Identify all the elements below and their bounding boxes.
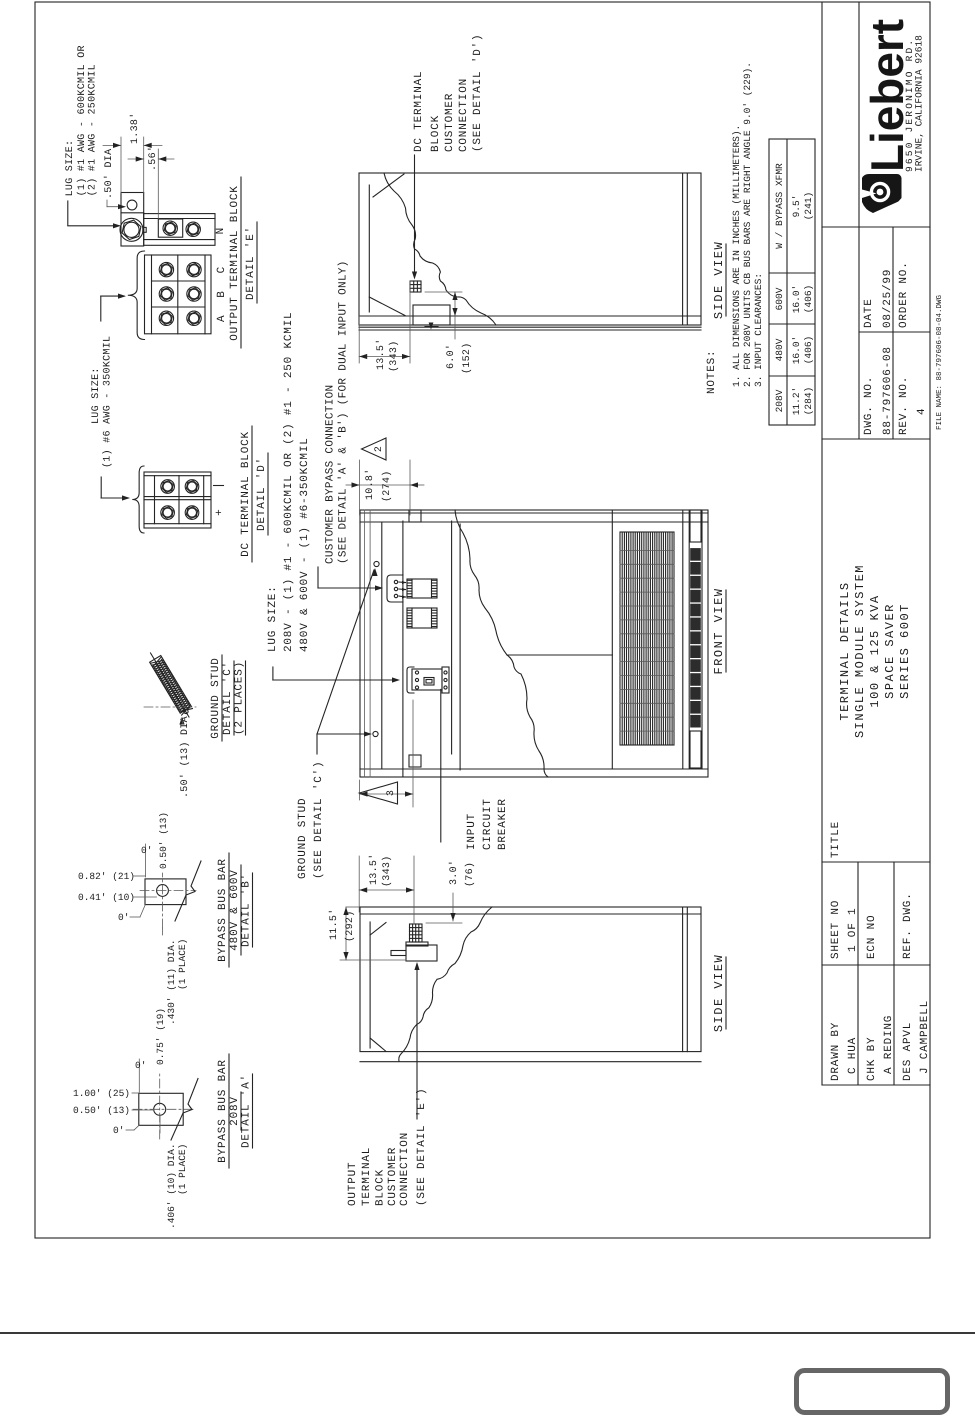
svg-text:TITLE: TITLE	[830, 821, 842, 858]
svg-text:C: C	[216, 266, 228, 273]
svg-text:(76): (76)	[464, 862, 476, 887]
input circuit breaker	[407, 667, 414, 693]
svg-text:TERMINAL DETAILS: TERMINAL DETAILS	[838, 581, 852, 720]
svg-text:DETAIL 'D': DETAIL 'D'	[256, 457, 268, 531]
svg-text:208V: 208V	[229, 1096, 241, 1126]
dimension 13.5 right side view	[358, 316, 360, 363]
svg-text:J CAMPBELL: J CAMPBELL	[919, 1000, 931, 1074]
leader to dc terminal block label	[414, 155, 416, 275]
svg-text:(SEE DETAIL 'A' & 'B') (FOR DU: (SEE DETAIL 'A' & 'B') (FOR DUAL INPUT O…	[338, 260, 350, 564]
title block top border line	[821, 2, 823, 1085]
detail E neutral screws	[163, 221, 177, 235]
svg-text:DC TERMINAL BLOCK: DC TERMINAL BLOCK	[240, 431, 252, 557]
lug bracket above block A	[387, 575, 403, 602]
svg-text:(1) #1 AWG - 600KCMIL OR: (1) #1 AWG - 600KCMIL OR	[76, 45, 88, 196]
svg-text:ECN NO: ECN NO	[866, 915, 878, 959]
dimension 3.0 left side view	[426, 922, 462, 924]
svg-text:C HUA: C HUA	[847, 1037, 859, 1074]
detail B break symbol	[175, 861, 201, 921]
svg-text:DETAIL 'B': DETAIL 'B'	[241, 873, 253, 947]
front view inner vertical lines	[360, 768, 708, 770]
detail E lug hex screw	[120, 218, 143, 241]
svg-text:(1) #6 AWG - 350KCMIL: (1) #6 AWG - 350KCMIL	[102, 336, 114, 468]
svg-text:B: B	[216, 290, 228, 297]
svg-text:0.50' (13): 0.50' (13)	[73, 1105, 130, 1116]
detail E neutral block	[144, 214, 215, 246]
detail B horizontal dims	[145, 844, 147, 877]
detail D brace leader	[100, 477, 102, 498]
Liebert logo icon	[862, 174, 902, 213]
dc terminal block detail D body	[144, 472, 211, 528]
detail E brace leader	[100, 296, 102, 321]
svg-text:0.75' (19): 0.75' (19)	[155, 1008, 166, 1065]
input clearance table	[769, 139, 815, 425]
svg-text:100 & 125 KVA: 100 & 125 KVA	[868, 594, 882, 707]
ground stud detail C hatched stud	[150, 655, 193, 715]
detail B hole	[157, 885, 169, 897]
detail E lug hole	[127, 200, 137, 210]
svg-text:CONNECTION: CONNECTION	[458, 78, 470, 152]
svg-text:(343): (343)	[388, 340, 400, 372]
front view ground stud upper	[374, 561, 379, 566]
svg-text:2: 2	[374, 446, 385, 452]
ground stud centre line	[144, 706, 196, 708]
svg-text:0': 0'	[113, 1125, 124, 1136]
bypass bus bar detail A body	[139, 1093, 183, 1125]
svg-text:IRVINE, CALIFORNIA 92618: IRVINE, CALIFORNIA 92618	[914, 35, 925, 172]
svg-text:DETAIL 'E': DETAIL 'E'	[245, 226, 257, 300]
ground stud axis line	[151, 653, 190, 717]
detail A centre lines	[133, 1108, 196, 1110]
svg-text:6.0': 6.0'	[445, 344, 457, 369]
dwg-no date table lines	[858, 2, 860, 439]
input circuit breaker leader	[440, 689, 442, 842]
dimension 10.8 front view	[359, 460, 361, 515]
title block divider lines	[822, 1084, 930, 1086]
svg-text:2. FOR 208V UNITS CB BUS BARS: 2. FOR 208V UNITS CB BUS BARS ARE RIGHT …	[742, 62, 753, 387]
right side view corner braces	[373, 174, 404, 197]
front view bypass connection block A	[407, 579, 437, 598]
svg-text:88-797606-08: 88-797606-08	[882, 346, 894, 435]
svg-text:CUSTOMER BYPASS CONNECTION: CUSTOMER BYPASS CONNECTION	[325, 385, 337, 564]
svg-text:CUSTOMER: CUSTOMER	[444, 93, 456, 152]
detail A break symbol	[171, 1079, 198, 1141]
front view break line	[455, 510, 548, 777]
svg-text:(152): (152)	[461, 342, 473, 374]
front view cabinet outline	[360, 510, 708, 777]
svg-text:NOTES:: NOTES:	[706, 350, 718, 394]
svg-text:DRAWN BY: DRAWN BY	[830, 1022, 842, 1081]
left side view corner braces	[370, 923, 386, 936]
front view bypass connection block B	[407, 608, 437, 628]
svg-text:GROUND STUD: GROUND STUD	[297, 798, 309, 879]
svg-text:DES APVL: DES APVL	[902, 1022, 914, 1081]
svg-text:480V & 600V - (1) #6-350KCMIL: 480V & 600V - (1) #6-350KCMIL	[299, 437, 311, 652]
detail D brace	[132, 466, 144, 533]
svg-text:(2) #1 AWG - 250KCMIL: (2) #1 AWG - 250KCMIL	[87, 64, 99, 196]
dimension flag 3 front view	[359, 780, 361, 800]
svg-text:DC TERMINAL: DC TERMINAL	[413, 71, 425, 152]
svg-text:SINGLE MODULE SYSTEM: SINGLE MODULE SYSTEM	[853, 564, 867, 738]
svg-text:BLOCK: BLOCK	[430, 115, 442, 152]
svg-text:SIDE VIEW: SIDE VIEW	[712, 954, 726, 1032]
svg-text:BREAKER: BREAKER	[497, 798, 509, 850]
svg-text:GROUND STUD: GROUND STUD	[210, 657, 222, 738]
dimension 11.5 left side view	[340, 959, 406, 961]
svg-text:13.5': 13.5'	[375, 338, 387, 370]
svg-text:10.8': 10.8'	[364, 468, 376, 500]
right side view breaker pocket	[413, 305, 450, 325]
leader to output terminal block label	[416, 964, 418, 1119]
svg-text:+: +	[214, 508, 226, 515]
svg-text:3: 3	[386, 790, 397, 796]
ground stud leader lines	[316, 734, 318, 754]
left side view rear panel lines	[360, 1061, 701, 1063]
svg-text:BLOCK: BLOCK	[375, 1169, 387, 1206]
svg-text:(2 PLACES): (2 PLACES)	[234, 661, 246, 735]
svg-text:0': 0'	[118, 912, 129, 923]
svg-text:CIRCUIT: CIRCUIT	[482, 798, 494, 850]
dimension 13.5 left side view	[358, 856, 360, 912]
lug size leader to breaker	[272, 667, 274, 680]
front view mid panel line	[507, 654, 612, 656]
svg-text:SHEET NO: SHEET NO	[830, 900, 842, 959]
svg-text:(274): (274)	[381, 470, 393, 502]
svg-text:11.2': 11.2'	[791, 387, 802, 416]
svg-text:13.5': 13.5'	[368, 853, 380, 885]
front view top rail tab	[409, 510, 421, 522]
svg-text:CHK BY: CHK BY	[866, 1037, 878, 1081]
svg-text:1. ALL DIMENSIONS ARE IN INCHE: 1. ALL DIMENSIONS ARE IN INCHES (MILLIME…	[731, 125, 742, 387]
svg-text:(1 PLACE): (1 PLACE)	[177, 1144, 188, 1195]
svg-text:SERIES 600T: SERIES 600T	[898, 603, 912, 699]
page footer separator line	[0, 1332, 975, 1334]
svg-text:W / BYPASS XFMR: W / BYPASS XFMR	[774, 163, 785, 249]
svg-text:1.00' (25): 1.00' (25)	[73, 1088, 130, 1099]
svg-text:DETAIL 'A': DETAIL 'A'	[241, 1074, 253, 1148]
svg-text:FRONT VIEW: FRONT VIEW	[712, 587, 726, 674]
customer bypass leader	[317, 567, 319, 588]
svg-text:0': 0'	[141, 845, 152, 856]
svg-text:0.41' (10): 0.41' (10)	[78, 892, 135, 903]
left side view terminal tab	[391, 951, 406, 956]
front view horizontal frame lines	[363, 510, 365, 777]
right side view pocket mark	[425, 326, 438, 328]
front view ground stud lower	[373, 731, 378, 736]
svg-text:A: A	[216, 315, 228, 322]
svg-text:(406): (406)	[803, 285, 814, 314]
detail E brace	[128, 251, 145, 340]
svg-text:(SEE DETAIL 'C'): (SEE DETAIL 'C')	[313, 761, 325, 879]
svg-text:DETAIL 'C': DETAIL 'C'	[222, 661, 234, 735]
bypass bus bar detail B body	[145, 879, 186, 905]
dimension 1.38 detail E	[120, 137, 122, 193]
svg-text:0.50' (13): 0.50' (13)	[158, 812, 169, 869]
dimension .56 detail E	[157, 149, 159, 219]
right side view top rail line	[368, 185, 370, 312]
front view base rail	[688, 510, 690, 769]
svg-text:(292): (292)	[344, 910, 356, 942]
svg-text:4: 4	[916, 408, 928, 415]
dimension flag 2	[362, 438, 387, 460]
left side view break line	[399, 907, 492, 1061]
svg-text:SIDE VIEW: SIDE VIEW	[712, 241, 726, 319]
svg-text:CONNECTION: CONNECTION	[399, 1132, 411, 1206]
svg-text:(SEE DETAIL 'E'): (SEE DETAIL 'E')	[416, 1088, 428, 1206]
svg-text:BYPASS BUS BAR: BYPASS BUS BAR	[217, 858, 229, 962]
svg-text:LUG SIZE:: LUG SIZE:	[91, 367, 102, 424]
svg-text:16.0': 16.0'	[791, 336, 802, 365]
svg-text:(284): (284)	[803, 387, 814, 416]
svg-text:0': 0'	[135, 1060, 146, 1071]
svg-text:1 OF 1: 1 OF 1	[847, 908, 859, 952]
right side view base lines	[682, 173, 684, 325]
svg-text:.56': .56'	[147, 146, 159, 171]
svg-text:(SEE DETAIL 'D'): (SEE DETAIL 'D')	[472, 34, 484, 152]
svg-text:TERMINAL: TERMINAL	[361, 1147, 373, 1206]
svg-text:BYPASS BUS BAR: BYPASS BUS BAR	[217, 1059, 229, 1163]
svg-text:.406' (10) DIA.: .406' (10) DIA.	[166, 1143, 177, 1229]
svg-text:OUTPUT TERMINAL BLOCK: OUTPUT TERMINAL BLOCK	[229, 185, 241, 340]
left side view cabinet outline	[360, 907, 701, 1052]
svg-text:600V: 600V	[774, 287, 785, 310]
dimension 6.0 right side view	[425, 291, 462, 293]
svg-text:(241): (241)	[803, 192, 814, 221]
svg-text:3.0': 3.0'	[448, 860, 460, 885]
detail E lug block	[121, 193, 144, 247]
detail A horizontal dims	[138, 1059, 140, 1092]
svg-text:INPUT: INPUT	[466, 813, 478, 850]
left side view base lines	[682, 907, 684, 1052]
left side view output terminal block assembly	[406, 945, 437, 961]
svg-text:.430' (11) DIA.: .430' (11) DIA.	[166, 939, 177, 1025]
svg-text:(1 PLACE): (1 PLACE)	[177, 939, 188, 990]
svg-text:SPACE SAVER: SPACE SAVER	[883, 603, 897, 699]
detail E lug leader	[67, 201, 69, 225]
svg-text:480V & 600V: 480V & 600V	[229, 869, 241, 950]
svg-text:N: N	[215, 227, 227, 234]
right side view cabinet outline	[359, 173, 701, 325]
front view vent grille	[620, 532, 674, 745]
svg-text:16.0': 16.0'	[791, 285, 802, 314]
detail D screws	[161, 506, 175, 520]
svg-text:REV. NO.: REV. NO.	[898, 376, 910, 435]
right side view dc terminal block symbol	[410, 281, 421, 292]
svg-text:3. INPUT CLEARANCES:: 3. INPUT CLEARANCES:	[753, 273, 764, 387]
svg-text:11.5': 11.5'	[328, 908, 340, 940]
svg-text:LUG SIZE:: LUG SIZE:	[65, 140, 76, 197]
right side view rear panel lines	[359, 329, 701, 331]
right side view break line	[384, 173, 496, 325]
svg-text:(343): (343)	[381, 855, 393, 887]
svg-text:DATE: DATE	[863, 298, 875, 328]
svg-text:OUTPUT: OUTPUT	[347, 1162, 359, 1206]
drawing sheet border frame	[35, 2, 930, 1238]
front view bottom rail tab	[409, 755, 421, 767]
svg-text:ORDER NO.: ORDER NO.	[898, 261, 910, 328]
svg-text:REF. DWG.: REF. DWG.	[902, 892, 914, 959]
svg-text:1.38': 1.38'	[129, 112, 141, 144]
detail E ABC screws	[159, 311, 173, 325]
detail B centre lines	[140, 890, 196, 892]
svg-text:208V: 208V	[774, 389, 785, 412]
svg-text:LUG SIZE:: LUG SIZE:	[267, 585, 279, 652]
detail E lug tab	[143, 227, 146, 232]
svg-text:CUSTOMER: CUSTOMER	[387, 1147, 399, 1206]
output terminal block detail E - ABC block	[145, 255, 212, 334]
svg-text:9.5': 9.5'	[791, 195, 802, 218]
svg-text:(406): (406)	[803, 336, 814, 365]
svg-text:208V - (1) #1 - 600KCMIL OR (2: 208V - (1) #1 - 600KCMIL OR (2) #1 - 250…	[283, 312, 295, 652]
left side view top rail line	[369, 922, 371, 1048]
svg-text:08/25/99: 08/25/99	[882, 269, 894, 328]
svg-text:480V: 480V	[774, 338, 785, 361]
svg-text:FILE NAME: 88-797606-08-04.DWG: FILE NAME: 88-797606-08-04.DWG	[935, 294, 944, 430]
footer button placeholder	[797, 1371, 948, 1413]
svg-text:0.82' (21): 0.82' (21)	[78, 871, 135, 882]
detail A hole	[154, 1103, 166, 1115]
svg-text:.50' DIA: .50' DIA	[103, 149, 115, 199]
svg-text:DWG. NO.: DWG. NO.	[863, 376, 875, 435]
svg-text:A REDING: A REDING	[883, 1015, 895, 1074]
